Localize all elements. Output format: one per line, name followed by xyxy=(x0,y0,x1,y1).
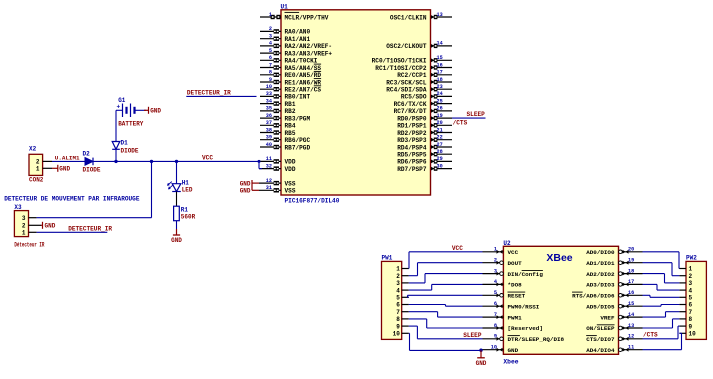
pin 2 RA0/AN0 (U1 left) xyxy=(260,26,310,36)
svg-text:34: 34 xyxy=(266,98,272,104)
svg-text:29: 29 xyxy=(437,156,443,162)
pin 20 RD1/PSP1 (U1 right) xyxy=(397,120,452,130)
svg-text:GND: GND xyxy=(171,237,182,244)
svg-text:RE1/AN6/WR: RE1/AN6/WR xyxy=(285,79,322,86)
svg-text:1: 1 xyxy=(269,12,272,18)
svg-text:20: 20 xyxy=(628,247,634,253)
svg-text:PWM0/RSSI: PWM0/RSSI xyxy=(508,303,540,310)
label H1 xyxy=(182,180,190,187)
svg-text:VCC: VCC xyxy=(508,249,519,256)
svg-text:7: 7 xyxy=(689,309,693,316)
pin 29 RD6/PSP6 (U1 right) xyxy=(397,156,452,166)
svg-text:GND: GND xyxy=(45,223,56,230)
svg-text:1: 1 xyxy=(36,166,40,173)
pin 10 (PW1) xyxy=(393,331,409,338)
pin 7 (PW2) xyxy=(679,309,692,316)
svg-text:DETECTEUR_IR: DETECTEUR_IR xyxy=(68,226,112,233)
wire net DETECTEUR_IR from X3 pin1 xyxy=(37,231,108,233)
pin 8 [Reserved] (U2 left) xyxy=(483,323,543,332)
pin 18 AD2/DIO2 (U2 right) xyxy=(586,268,642,277)
wire U2 pin 20 to PW2 pin 1 xyxy=(643,252,680,269)
svg-text:+: + xyxy=(117,104,121,111)
value DIODE (D2) xyxy=(83,166,101,173)
svg-text:X3: X3 xyxy=(14,204,22,211)
pin 19 RD0/PSP0 (U1 right) xyxy=(397,113,452,123)
svg-text:AD5/DIO5: AD5/DIO5 xyxy=(586,303,615,310)
pin 1 (X3) xyxy=(22,230,37,237)
connector X3 body xyxy=(14,211,28,237)
pin 33 RB0/INT (U1 left) xyxy=(260,91,310,101)
svg-text:SLEEP: SLEEP xyxy=(467,111,486,118)
pin 30 RD7/PSP7 (U1 right) xyxy=(397,163,452,173)
pin 5 RESET (U2 left) xyxy=(483,290,526,299)
pin 19 AD1/DIO1 (U2 right) xyxy=(586,258,642,267)
svg-text:6: 6 xyxy=(269,55,272,61)
pin 20 AD0/DIO0 (U2 right) xyxy=(586,247,642,256)
pin 2 (PW2) xyxy=(679,273,692,280)
svg-text:30: 30 xyxy=(437,163,443,169)
wire battery to D1 xyxy=(116,110,123,161)
svg-text:DETECTEUR DE MOUVEMENT PAR INF: DETECTEUR DE MOUVEMENT PAR INFRAROUGE xyxy=(4,196,140,203)
svg-text:VSS: VSS xyxy=(285,188,296,195)
svg-text:RE2/AN7/CS: RE2/AN7/CS xyxy=(285,87,322,94)
svg-text:40: 40 xyxy=(266,142,272,148)
pin 2 (X3) xyxy=(22,223,41,230)
svg-text:2: 2 xyxy=(689,273,693,280)
pin 39 RB6/PGC (U1 left) xyxy=(260,135,310,145)
svg-text:2: 2 xyxy=(396,273,400,280)
pin 27 RD4/PSP4 (U1 right) xyxy=(397,142,452,152)
svg-text:DOUT: DOUT xyxy=(508,260,523,267)
pin 6 (PW1) xyxy=(396,302,409,309)
pin 23 RC4/SDI/SDA (U1 right) xyxy=(386,84,452,94)
pin 1 (X2) xyxy=(36,166,52,173)
pin 8 (PW2) xyxy=(679,316,692,323)
svg-text:RC7/RX/DT: RC7/RX/DT xyxy=(394,108,427,115)
svg-text:GND: GND xyxy=(508,347,519,354)
svg-text:RD3/PSP3: RD3/PSP3 xyxy=(397,137,427,144)
svg-text:OSC2/CLKOUT: OSC2/CLKOUT xyxy=(386,43,427,50)
svg-text:14: 14 xyxy=(437,41,443,47)
svg-text:12: 12 xyxy=(628,334,634,340)
pin 14 OSC2/CLKOUT (U1 right) xyxy=(386,41,452,51)
wire PW1 pin 7 to U2 pin 7 xyxy=(409,312,483,317)
svg-text:BATTERY: BATTERY xyxy=(118,120,144,127)
value Détecteur IR xyxy=(14,242,44,249)
pin 11 AD4/DIO4 (U2 right) xyxy=(586,345,642,354)
svg-text:22: 22 xyxy=(437,135,443,141)
node label VCC xyxy=(202,155,213,162)
svg-text:6: 6 xyxy=(494,301,497,307)
svg-text:PIC16F877/DIL40: PIC16F877/DIL40 xyxy=(285,197,340,204)
wire PW1 pin 9 to U2 pin 9 xyxy=(409,326,483,339)
pin 3 (X3) xyxy=(22,215,37,222)
svg-text:AD4/DIO4: AD4/DIO4 xyxy=(586,347,615,354)
value PIC16F877/DIL40 xyxy=(285,197,340,204)
svg-text:RB3/PGM: RB3/PGM xyxy=(285,115,311,122)
label PW2 xyxy=(686,255,697,262)
pin 24 RC5/SDO (U1 right) xyxy=(401,91,452,101)
svg-text:PW1: PW1 xyxy=(382,255,393,262)
pin 8 (PW1) xyxy=(396,316,409,323)
svg-text:11: 11 xyxy=(628,345,634,351)
value DIODE (D1) xyxy=(121,147,139,154)
svg-text:20: 20 xyxy=(437,120,443,126)
svg-text:RC4/SDI/SDA: RC4/SDI/SDA xyxy=(386,87,427,94)
svg-text:/CTS: /CTS xyxy=(643,332,658,339)
label U1 xyxy=(281,4,289,11)
pin 1 VCC (U2 left) xyxy=(483,247,519,256)
svg-text:RA0/AN0: RA0/AN0 xyxy=(285,29,311,36)
pin 9 RE1/AN6/WR (U1 left) xyxy=(260,77,321,87)
pin 2 DOUT (U2 left) xyxy=(483,258,523,267)
wire U2 pin 16 to PW2 pin 5 xyxy=(643,295,680,297)
svg-text:MCLR/VPP/THV: MCLR/VPP/THV xyxy=(285,14,329,21)
pin 2 (PW1) xyxy=(396,273,409,280)
wire U2 pin 19 to PW2 pin 2 xyxy=(643,263,680,276)
svg-text:1: 1 xyxy=(494,247,497,253)
svg-text:33: 33 xyxy=(266,91,272,97)
svg-text:12: 12 xyxy=(266,178,272,184)
ground symbol at U1 VSS pins xyxy=(240,180,259,195)
pin 7 (PW1) xyxy=(396,309,409,316)
svg-text:DIODE: DIODE xyxy=(83,166,101,173)
svg-text:2: 2 xyxy=(36,159,40,166)
pin 6 (PW2) xyxy=(679,302,692,309)
svg-text:RD7/PSP7: RD7/PSP7 xyxy=(397,166,427,173)
svg-text:[Reserved]: [Reserved] xyxy=(508,325,543,332)
svg-text:13: 13 xyxy=(437,12,443,18)
svg-text:7: 7 xyxy=(396,309,400,316)
svg-text:H1: H1 xyxy=(182,180,190,187)
svg-text:5: 5 xyxy=(494,290,497,296)
svg-text:4: 4 xyxy=(269,41,272,47)
svg-text:GND: GND xyxy=(59,166,70,173)
svg-text:15: 15 xyxy=(437,55,443,61)
svg-text:CTS/DIO7: CTS/DIO7 xyxy=(586,336,615,343)
svg-text:CON2: CON2 xyxy=(29,177,44,184)
pin 8 RE0/AN5/RD (U1 left) xyxy=(260,70,321,80)
svg-text:3: 3 xyxy=(22,215,26,222)
svg-text:RA2/AN2/VREF-: RA2/AN2/VREF- xyxy=(285,43,333,50)
pin 3 DIN/Config (U2 left) xyxy=(483,268,544,277)
pin 31 VSS (U1 left) xyxy=(259,185,296,195)
svg-text:37: 37 xyxy=(266,120,272,126)
svg-text:11: 11 xyxy=(266,156,272,162)
pin 7 RA5/AN4/SS (U1 left) xyxy=(260,62,321,72)
pin 3 (PW2) xyxy=(679,280,692,287)
svg-text:24: 24 xyxy=(437,91,443,97)
svg-text:Détecteur IR: Détecteur IR xyxy=(14,242,44,249)
pin 10 RE2/AN7/CS (U1 left) xyxy=(260,84,321,94)
svg-text:RA3/AN3/VREF+: RA3/AN3/VREF+ xyxy=(285,50,333,57)
svg-text:9: 9 xyxy=(396,323,400,330)
node label SLEEP xyxy=(467,111,486,118)
pin 2 (X2) xyxy=(36,159,52,166)
svg-text:RD5/PSP5: RD5/PSP5 xyxy=(397,152,427,159)
op-amp U1 PIC16F877 chip body xyxy=(281,10,431,195)
pin 12 VSS (U1 left) xyxy=(259,178,296,188)
svg-text:7: 7 xyxy=(269,62,272,68)
label D2 xyxy=(83,151,91,158)
svg-text:5: 5 xyxy=(396,295,400,302)
pin 16 RC1/T1OSI/CCP2 (U1 right) xyxy=(375,62,452,72)
svg-text:RB7/PGD: RB7/PGD xyxy=(285,144,311,151)
svg-text:3: 3 xyxy=(396,280,400,287)
svg-text:1: 1 xyxy=(396,266,400,273)
svg-text:3: 3 xyxy=(689,280,693,287)
svg-text:RB6/PGC: RB6/PGC xyxy=(285,137,311,144)
pin 14 VREF (U2 right) xyxy=(600,312,642,321)
svg-text:VSS: VSS xyxy=(285,180,296,187)
svg-text:10: 10 xyxy=(491,345,497,351)
wire PW1 pin 5 to U2 pin 5 xyxy=(408,295,483,297)
svg-text:9: 9 xyxy=(494,334,497,340)
svg-text:25: 25 xyxy=(437,98,443,104)
svg-text:RB4: RB4 xyxy=(285,123,296,130)
wire U2 pin 14 to PW2 pin 7 xyxy=(643,312,680,317)
node label SLEEP (XBee) xyxy=(463,332,482,339)
pin 7 PWM1 (U2 left) xyxy=(483,312,523,321)
svg-text:6: 6 xyxy=(396,302,400,309)
svg-text:RA1/AN1: RA1/AN1 xyxy=(285,36,311,43)
svg-text:4: 4 xyxy=(689,287,693,294)
svg-text:RC1/T1OSI/CCP2: RC1/T1OSI/CCP2 xyxy=(375,65,427,72)
pin 38 RB5 (U1 left) xyxy=(260,127,296,137)
svg-text:10: 10 xyxy=(266,84,272,90)
svg-text:SLEEP: SLEEP xyxy=(463,332,482,339)
pin 18 RC3/SCK/SCL (U1 right) xyxy=(386,77,452,87)
svg-text:GND: GND xyxy=(240,180,251,187)
pin 17 RC2/CCP1 (U1 right) xyxy=(397,70,452,80)
svg-text:RE0/AN5/RD: RE0/AN5/RD xyxy=(285,72,322,79)
svg-text:DIODE: DIODE xyxy=(121,147,139,154)
svg-text:5: 5 xyxy=(269,48,272,54)
ground symbol below U2 xyxy=(476,350,487,366)
svg-text:2: 2 xyxy=(269,26,272,32)
pin 37 RB4 (U1 left) xyxy=(260,120,296,130)
svg-text:GND: GND xyxy=(476,360,487,367)
node label VCC (XBee) xyxy=(452,245,463,252)
svg-text:15: 15 xyxy=(628,301,634,307)
pin 1 MCLR/VPP/THV (U1 left) xyxy=(260,12,329,21)
pin 13 ON/SLEEP (U2 right) xyxy=(586,323,642,332)
svg-text:1: 1 xyxy=(22,230,26,237)
label D1 xyxy=(121,140,129,147)
title XBee xyxy=(546,252,572,264)
svg-text:8: 8 xyxy=(269,70,272,76)
connector X2 body xyxy=(29,154,43,175)
wire U2 pin 11 to PW2 pin 10 xyxy=(643,333,682,349)
pin 3 RA1/AN1 (U1 left) xyxy=(260,34,310,44)
node label DETECTEUR_IR xyxy=(187,90,231,97)
wire PW1 pin 6 to U2 pin 6 xyxy=(409,305,483,307)
svg-text:23: 23 xyxy=(437,84,443,90)
wire R1 to ground xyxy=(176,221,178,229)
svg-text:RB0/INT: RB0/INT xyxy=(285,94,311,101)
svg-text:32: 32 xyxy=(266,163,272,169)
label R1 xyxy=(181,207,189,214)
svg-text:18: 18 xyxy=(437,77,443,83)
pin 12 CTS/DIO7 (U2 right) xyxy=(586,334,642,343)
pin 5 (PW2) xyxy=(679,295,692,302)
svg-text:39: 39 xyxy=(266,135,272,141)
label X2 xyxy=(29,146,37,153)
svg-text:PWM1: PWM1 xyxy=(508,314,523,321)
wire VCC rail to LED xyxy=(176,161,178,183)
svg-text:3: 3 xyxy=(494,268,497,274)
pin 40 RB7/PGD (U1 left) xyxy=(260,142,310,152)
wire net VCC rail xyxy=(52,161,262,168)
svg-text:D2: D2 xyxy=(83,151,91,158)
label PW1 xyxy=(382,255,393,262)
label U2 xyxy=(503,240,511,247)
pin 13 OSC1/CLKIN (U1 right) xyxy=(390,12,452,21)
value BATTERY xyxy=(118,120,144,127)
diode D1 xyxy=(112,142,120,150)
pin 10 (PW2) xyxy=(679,331,696,338)
wire PW1 pin 1 to U2 pin 1 xyxy=(409,252,483,269)
battery G1 xyxy=(117,104,147,118)
node label /CTS (XBee) xyxy=(643,332,658,339)
value LED xyxy=(182,187,193,194)
svg-text:36: 36 xyxy=(266,113,272,119)
svg-text:5: 5 xyxy=(689,295,693,302)
svg-text:9: 9 xyxy=(269,77,272,83)
svg-text:35: 35 xyxy=(266,106,272,112)
wire U2 pin 15 to PW2 pin 6 xyxy=(643,305,680,307)
wire U2 pin 18 to PW2 pin 3 xyxy=(643,274,680,283)
svg-text:G1: G1 xyxy=(118,97,126,104)
wire U2 pin 12 to PW2 pin 9 xyxy=(643,326,680,339)
wire PW1 pin 8 to U2 pin 8 xyxy=(409,319,483,328)
value CON2 xyxy=(29,177,44,184)
svg-text:RD2/PSP2: RD2/PSP2 xyxy=(397,130,427,137)
wire U2 pin 17 to PW2 pin 4 xyxy=(643,284,680,290)
pin 26 RC7/RX/DT (U1 right) xyxy=(394,106,452,116)
svg-text:28: 28 xyxy=(437,149,443,155)
svg-text:17: 17 xyxy=(628,279,634,285)
pin 10 GND (U2 left) xyxy=(483,345,519,354)
pin 15 AD5/DIO5 (U2 right) xyxy=(586,301,642,310)
svg-text:DETECTEUR_IR: DETECTEUR_IR xyxy=(187,90,231,97)
ground symbol at X3 pin 2 xyxy=(41,222,56,230)
pin 9 DTR/SLEEP_RQ/DI8 (U2 left) xyxy=(483,334,565,343)
svg-text:1: 1 xyxy=(689,266,693,273)
svg-text:GND: GND xyxy=(240,188,251,195)
svg-text:RD4/PSP4: RD4/PSP4 xyxy=(397,144,427,151)
label G1 xyxy=(118,97,126,104)
svg-text:RD0/PSP0: RD0/PSP0 xyxy=(397,115,427,122)
wire net DETECTEUR_IR to RB0 xyxy=(186,95,256,97)
pin 6 RA4/T0CKI (U1 left) xyxy=(260,55,318,65)
svg-text:U.ALIM1: U.ALIM1 xyxy=(55,154,80,161)
svg-text:RC2/CCP1: RC2/CCP1 xyxy=(397,72,427,79)
svg-text:Xbee: Xbee xyxy=(503,359,518,366)
ground symbol at battery xyxy=(144,107,161,115)
pin 25 RC6/TX/CK (U1 right) xyxy=(394,98,452,108)
svg-text:ON/SLEEP: ON/SLEEP xyxy=(586,325,615,332)
svg-text:16: 16 xyxy=(628,290,634,296)
svg-text:8: 8 xyxy=(494,323,497,329)
node label U.ALIM1 xyxy=(55,154,80,161)
svg-text:RC0/T1OSO/T1CKI: RC0/T1OSO/T1CKI xyxy=(372,58,427,65)
pin 3 (PW1) xyxy=(396,280,409,287)
svg-text:RB2: RB2 xyxy=(285,108,296,115)
svg-text:VCC: VCC xyxy=(452,245,463,252)
label X3 xyxy=(14,204,22,211)
svg-text:9: 9 xyxy=(689,323,693,330)
IC U2 XBee chip body xyxy=(503,246,618,354)
wire PW1 pin 3 to U2 pin 3 xyxy=(409,274,483,283)
pin 1 (PW1) xyxy=(396,266,409,273)
LED H1 xyxy=(168,182,181,192)
svg-text:RD1/PSP1: RD1/PSP1 xyxy=(397,123,427,130)
wire X3 pin3 to VCC rail xyxy=(37,161,152,217)
svg-text:2: 2 xyxy=(22,223,26,230)
value 560R xyxy=(181,213,196,220)
svg-text:OSC1/CLKIN: OSC1/CLKIN xyxy=(390,14,427,21)
svg-text:RA5/AN4/SS: RA5/AN4/SS xyxy=(285,65,322,72)
value Xbee xyxy=(503,359,518,366)
svg-text:38: 38 xyxy=(266,127,272,133)
svg-text:X2: X2 xyxy=(29,146,37,153)
pin 4 (PW1) xyxy=(396,287,409,294)
svg-text:14: 14 xyxy=(628,312,634,318)
wire PW1 pin 10 to U2 pin 10 and ground xyxy=(409,333,483,350)
svg-text:AD1/DIO1: AD1/DIO1 xyxy=(586,260,615,267)
pin 21 RD2/PSP2 (U1 right) xyxy=(397,127,452,137)
svg-text:2: 2 xyxy=(494,258,497,264)
svg-text:DTR/SLEEP_RQ/DI8: DTR/SLEEP_RQ/DI8 xyxy=(508,336,565,343)
node label /CTS xyxy=(453,120,468,127)
svg-text:31: 31 xyxy=(266,185,272,191)
svg-text:U1: U1 xyxy=(281,4,289,11)
svg-text:/CTS: /CTS xyxy=(453,120,468,127)
svg-text:10: 10 xyxy=(393,331,401,338)
svg-text:AD3/DIO3: AD3/DIO3 xyxy=(586,282,615,289)
svg-text:DIN/Config: DIN/Config xyxy=(508,271,544,278)
pin 36 RB3/PGM (U1 left) xyxy=(260,113,310,123)
ground symbol below R1 xyxy=(171,229,182,244)
svg-text:4: 4 xyxy=(494,279,497,285)
pin 32 VDD (U1 left) xyxy=(259,163,296,173)
wire PW1 pin 4 to U2 pin 4 xyxy=(409,284,483,290)
svg-text:PW2: PW2 xyxy=(686,255,697,262)
svg-text:16: 16 xyxy=(437,62,443,68)
svg-text:560R: 560R xyxy=(181,213,196,220)
pin 22 RD3/PSP3 (U1 right) xyxy=(397,135,452,145)
pin 35 RB2 (U1 left) xyxy=(260,106,296,116)
ground symbol at X2 pin 1 xyxy=(52,165,71,173)
svg-text:8: 8 xyxy=(396,316,400,323)
diode D2 xyxy=(85,158,93,166)
junction VDD corner xyxy=(258,160,261,163)
svg-text:RTS/AD6/DIO6: RTS/AD6/DIO6 xyxy=(572,293,615,300)
junction U2 GND node xyxy=(479,349,482,352)
svg-text:RC6/TX/CK: RC6/TX/CK xyxy=(394,101,427,108)
svg-text:4: 4 xyxy=(396,287,400,294)
svg-text:17: 17 xyxy=(437,70,443,76)
svg-text:RESET: RESET xyxy=(508,293,526,300)
pin 5 RA3/AN3/VREF+ (U1 left) xyxy=(260,48,332,58)
connector PW2 body xyxy=(686,261,706,339)
svg-text:26: 26 xyxy=(437,106,443,112)
pin 4 RA2/AN2/VREF- (U1 left) xyxy=(260,41,332,51)
wire U2 pin 13 to PW2 pin 8 xyxy=(643,319,680,328)
pin 4 *DO8 (U2 left) xyxy=(483,279,523,288)
svg-text:10: 10 xyxy=(689,331,697,338)
